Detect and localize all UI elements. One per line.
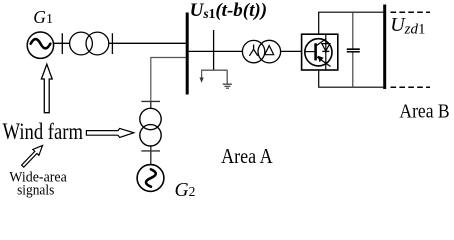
svg-text:Us1(t-b(t)): Us1(t-b(t)) [190,0,267,21]
svg-text:G2: G2 [175,180,196,201]
svg-text:Area B: Area B [399,100,449,122]
svg-text:Uzd1: Uzd1 [390,14,425,38]
svg-text:Area A: Area A [221,144,273,168]
svg-text:G1: G1 [33,7,53,27]
svg-text:signals: signals [17,183,54,199]
svg-text:Wind farm: Wind farm [3,119,84,144]
